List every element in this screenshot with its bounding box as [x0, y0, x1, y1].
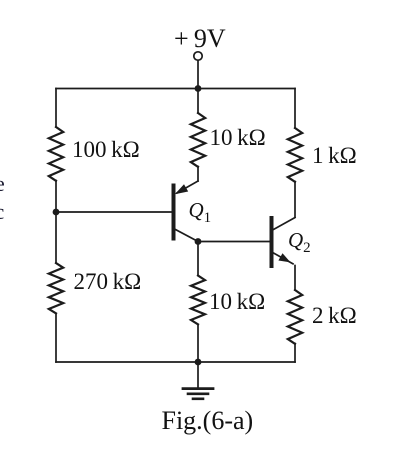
resistor R4 10k lower	[191, 276, 205, 325]
wire top rail to 10k top	[197, 89, 199, 114]
transistor Q1 base bar	[172, 186, 176, 239]
supply label +9V	[174, 24, 226, 54]
transistor Q1 emitter lead (arrow into bar, PNP)	[177, 181, 198, 193]
caption Fig.(6-a)	[162, 406, 254, 436]
wire bottom rail	[56, 361, 295, 363]
value label 270k	[74, 269, 142, 295]
node junction dot at bottom rail	[195, 359, 202, 366]
wire right vertical upper (top rail to 1k)	[294, 89, 296, 129]
wire node A to lower 10k	[197, 242, 199, 276]
wire ground stem	[197, 362, 199, 388]
transistor Q2 emitter lead (arrow out, NPN)	[274, 253, 294, 264]
wire 1k bottom to Q2 collector	[294, 182, 296, 218]
transistor Q1 collector lead	[176, 230, 199, 242]
wire Q1 base wire	[56, 211, 172, 213]
wire Q2 emitter to 2k top	[294, 266, 296, 291]
value label 1k	[312, 143, 357, 169]
value label 2k	[312, 303, 357, 329]
node A junction dot (Q1 collector / Q2 base)	[195, 238, 202, 245]
resistor R2 270k	[49, 263, 63, 313]
value label 10k lower	[209, 289, 265, 315]
transistor label Q2	[288, 228, 311, 257]
wire left vertical between 100k and 270k	[55, 181, 57, 263]
wire node A to Q2 base	[198, 241, 270, 243]
node junction dot at left base tap	[53, 209, 60, 216]
value label 10k upper	[210, 125, 266, 151]
wire top rail	[56, 88, 295, 90]
value label 100k	[72, 137, 140, 163]
edge letter c (clipped page text)	[0, 199, 4, 225]
transistor Q1 emitter arrowhead	[175, 184, 188, 194]
wire left vertical below 270k	[55, 314, 57, 363]
node junction dot at top rail	[195, 85, 202, 92]
transistor Q2 base bar	[270, 218, 274, 266]
resistor R1 100k	[49, 127, 63, 181]
+9V terminal circle	[194, 52, 202, 60]
wire 2k bottom to bottom rail	[294, 344, 296, 363]
wire 10k bottom to Q1 emitter bend	[197, 167, 199, 182]
resistor R5 1k	[288, 128, 302, 182]
resistor R6 2k	[288, 290, 302, 344]
wire lower 10k bottom to bottom rail	[197, 325, 199, 362]
transistor Q2 emitter arrowhead	[278, 253, 290, 262]
transistor label Q1	[189, 198, 212, 227]
wire +9V terminal to top rail	[197, 60, 199, 88]
ground	[183, 389, 213, 399]
wire left vertical above 100k	[55, 89, 57, 128]
resistor R3 10k upper	[191, 113, 205, 167]
transistor Q2 collector lead	[274, 218, 296, 230]
edge letter e (clipped page text)	[0, 171, 5, 197]
